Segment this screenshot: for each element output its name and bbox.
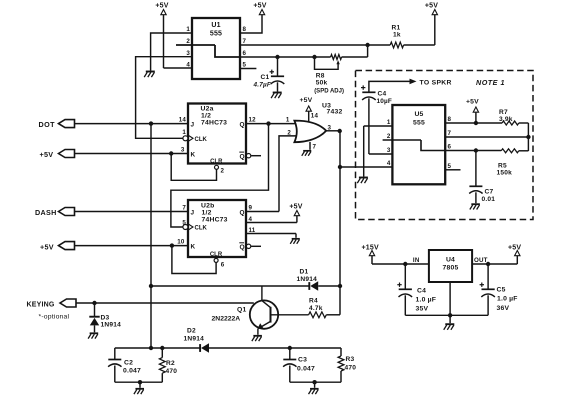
svg-text:5: 5 <box>448 163 452 170</box>
ground below C1 <box>271 93 282 99</box>
capacitor C2 0.047 <box>108 348 141 382</box>
or-gate U3 7432 <box>294 103 342 143</box>
op-amp U5 555 timer box <box>392 105 445 184</box>
ground below C7 <box>470 204 480 209</box>
wire KEYING to Q1 collector region <box>76 302 254 304</box>
node optional note <box>39 314 70 321</box>
svg-text:7: 7 <box>313 144 317 151</box>
svg-text:R4: R4 <box>309 298 318 305</box>
svg-text:1N914: 1N914 <box>297 276 318 283</box>
svg-text:1.0 µF: 1.0 µF <box>416 297 437 304</box>
svg-text:*-optional: *-optional <box>39 314 70 321</box>
power +5V arrow at U4 output <box>508 245 521 256</box>
svg-text:J: J <box>191 121 195 128</box>
svg-text:11: 11 <box>249 227 256 234</box>
svg-text:C5: C5 <box>497 287 506 294</box>
svg-text:7805: 7805 <box>443 265 459 272</box>
svg-text:R2: R2 <box>166 360 175 367</box>
node KEYING input terminal <box>27 299 77 308</box>
svg-text:50k: 50k <box>316 80 328 87</box>
wire U4 OUT to +5V <box>472 256 517 264</box>
wire C2 bottom rail <box>115 381 163 383</box>
svg-text:C3: C3 <box>298 357 307 364</box>
wire U5 pin5 stub <box>445 169 460 171</box>
node R7/R5/pin7 junction <box>526 135 530 139</box>
wire R1 to +5V <box>404 15 435 46</box>
svg-text:9: 9 <box>249 204 253 211</box>
resistor R1 1k <box>390 25 403 48</box>
svg-text:U2a: U2a <box>201 106 214 113</box>
regulator U4 7805 box <box>429 250 472 282</box>
svg-text:CLR: CLR <box>210 159 223 165</box>
svg-text:K: K <box>191 151 196 158</box>
node C2 ground junction <box>138 380 142 384</box>
svg-text:555: 555 <box>413 120 425 127</box>
svg-text:Q: Q <box>240 244 245 251</box>
svg-text:+5V: +5V <box>425 3 438 10</box>
svg-text:0.01: 0.01 <box>482 196 496 203</box>
svg-text:8: 8 <box>243 26 247 33</box>
svg-text:J: J <box>191 209 195 216</box>
wire U2a Q down and to U2b CLK <box>171 124 269 227</box>
node C3 ground junction <box>312 380 316 384</box>
wire DOT to U2a pin14 J <box>75 123 189 125</box>
svg-text:1k: 1k <box>393 32 401 39</box>
svg-text:C2: C2 <box>124 360 133 367</box>
svg-text:3.9k: 3.9k <box>499 116 513 123</box>
svg-text:1: 1 <box>387 119 391 126</box>
svg-text:DOT: DOT <box>39 120 56 129</box>
wire U3 output pin3 <box>326 130 340 132</box>
svg-text:Q: Q <box>240 209 245 216</box>
wire R4 line to Q1 base <box>271 314 309 316</box>
svg-text:+5V: +5V <box>508 245 521 252</box>
svg-text:7: 7 <box>243 38 247 45</box>
wire U3 pin7 to ground <box>310 142 317 151</box>
svg-text:35V: 35V <box>416 306 429 313</box>
svg-text:NOTE 1: NOTE 1 <box>476 78 505 87</box>
wire U5 pin4 from OR gate <box>340 166 392 168</box>
power +5V arrow above R1 <box>425 3 438 15</box>
svg-text:R1: R1 <box>392 25 401 32</box>
node junction OR column with D1 rail <box>338 284 342 288</box>
svg-text:14: 14 <box>179 116 187 123</box>
svg-text:74HC73: 74HC73 <box>201 120 227 127</box>
U2b pin numbers <box>177 204 256 268</box>
ground at U5 pin 1 <box>357 178 368 184</box>
power +5V arrow above U1 pin 4 <box>155 3 192 69</box>
wire +5V to U2b pin10 K <box>75 245 189 247</box>
svg-text:R3: R3 <box>346 356 355 363</box>
svg-text:6: 6 <box>243 50 247 57</box>
U2b CLR bubble below box <box>214 258 218 262</box>
ground at U2b pin 11 <box>290 239 300 244</box>
wire U2b pin11 to ground <box>246 234 296 238</box>
svg-text:7: 7 <box>182 204 186 211</box>
ground below D3 <box>88 333 98 338</box>
svg-text:C7: C7 <box>485 189 494 196</box>
resistor R3 470 <box>338 348 356 382</box>
svg-text:1.0 µF: 1.0 µF <box>497 296 518 303</box>
ground at U3 pin 7 <box>302 151 312 156</box>
svg-text:10: 10 <box>177 238 185 245</box>
wire U2b K to CLR pin6 <box>172 246 216 274</box>
svg-text:6: 6 <box>221 262 225 269</box>
svg-text:3: 3 <box>181 146 185 153</box>
svg-text:1: 1 <box>182 129 186 136</box>
wire U5 pin7 row <box>445 136 528 138</box>
power +15V arrow <box>362 245 379 265</box>
svg-text:+5V: +5V <box>253 3 266 10</box>
node C5 junction <box>486 262 490 266</box>
node +5V input terminal upper <box>40 150 75 159</box>
ground below C2 rail <box>134 389 144 394</box>
svg-text:1N914: 1N914 <box>184 336 205 343</box>
svg-text:+5V: +5V <box>155 3 168 10</box>
svg-text:1: 1 <box>286 116 290 123</box>
wire U5 pin1 to ground <box>364 126 393 177</box>
svg-text:4: 4 <box>387 160 391 167</box>
svg-text:(SPD ADJ): (SPD ADJ) <box>314 89 344 95</box>
node C3 junction on rail <box>288 346 292 350</box>
U2b pin labels inside <box>188 209 245 258</box>
svg-text:K: K <box>191 244 196 251</box>
U3 input/output pin numbers <box>286 116 332 136</box>
node U3 output junction <box>338 129 342 133</box>
ground below U4 <box>444 324 455 330</box>
svg-text:2: 2 <box>287 129 291 136</box>
svg-text:0.047: 0.047 <box>123 368 141 375</box>
capacitor C4 1.0uF 35V <box>397 264 436 315</box>
svg-text:3: 3 <box>387 147 391 154</box>
svg-text:8: 8 <box>448 116 452 123</box>
resistor R2 470 <box>159 348 177 382</box>
svg-text:+5V: +5V <box>466 99 479 106</box>
svg-text:D2: D2 <box>187 328 196 335</box>
svg-text:555: 555 <box>210 31 222 38</box>
svg-text:+5V: +5V <box>40 150 54 159</box>
svg-text:+5V: +5V <box>300 97 313 104</box>
svg-text:C4: C4 <box>378 91 387 98</box>
svg-text:IN: IN <box>413 257 420 264</box>
wire C3 ground stub <box>314 382 316 388</box>
wire U5 pin3 lead <box>369 153 393 155</box>
node U2a Q junction <box>266 121 270 125</box>
svg-text:2: 2 <box>387 133 391 140</box>
wire U2a K to CLR pin2 <box>171 154 216 181</box>
wire U1 pin1 lead to ground drop <box>151 33 192 71</box>
wire C3 bottom rail <box>290 381 341 383</box>
resistor R8 50k speed pot <box>314 45 367 95</box>
node C7 junction <box>474 148 478 152</box>
power +5V arrow above U1 pin 8 <box>253 3 266 15</box>
node +5V junction at U5 pin8 <box>474 121 478 125</box>
svg-text:7432: 7432 <box>327 109 343 116</box>
power +5V arrow at U5 pin 8 <box>466 99 479 124</box>
node junction DOT-D1 rail <box>149 284 153 288</box>
svg-text:Q1: Q1 <box>237 307 246 314</box>
power +5V arrow at U2b pin 4 <box>289 204 302 216</box>
wire U1 pin3 to U2a CLK <box>136 57 192 139</box>
svg-text:470: 470 <box>345 365 357 372</box>
U2a pin numbers <box>179 116 256 174</box>
svg-text:C4: C4 <box>417 288 426 295</box>
node DOT branch junction <box>149 121 153 125</box>
svg-text:6: 6 <box>448 144 452 151</box>
svg-text:R7: R7 <box>499 109 508 116</box>
svg-text:TO SPKR: TO SPKR <box>420 79 452 86</box>
svg-text:+5V: +5V <box>289 204 302 211</box>
node C4 psu junction <box>403 262 407 266</box>
wire U1 pin5 stub <box>240 68 256 70</box>
wire U1 pin7 row to R1 <box>240 44 390 46</box>
svg-text:1/2: 1/2 <box>201 113 211 120</box>
svg-text:CLK: CLK <box>195 137 208 143</box>
wire +5V to U2a pin3 K <box>75 153 189 155</box>
node +5V/U2b K junction <box>170 243 174 247</box>
node C1 junction <box>275 55 279 59</box>
capacitor C7 0.01 <box>469 151 495 204</box>
diode D2 1N914 <box>184 328 210 353</box>
wire R7 to pin7 column <box>519 123 529 151</box>
wire D1 rail <box>151 285 340 287</box>
ground at U1 pin 1 <box>144 72 155 78</box>
flip-flop U2a 74HC73 box <box>188 104 246 164</box>
svg-text:14: 14 <box>311 113 319 120</box>
svg-text:Q: Q <box>240 121 245 128</box>
svg-text:KEYING: KEYING <box>27 301 55 308</box>
svg-text:1/2: 1/2 <box>202 210 212 217</box>
wire DASH to U2b pin7 J <box>75 211 189 213</box>
wire U5 pin8 row <box>445 122 502 124</box>
transistor Q1 2N2222A <box>212 286 279 335</box>
svg-text:+15V: +15V <box>362 245 379 252</box>
svg-text:470: 470 <box>166 368 178 375</box>
svg-text:R5: R5 <box>498 162 507 169</box>
node R2 junction on rail <box>160 346 164 350</box>
capacitor C1 4.7uF <box>253 57 285 92</box>
svg-text:+5V: +5V <box>40 242 54 251</box>
node +5V/K junction <box>169 151 173 155</box>
node U4 ground junction <box>448 313 452 317</box>
node DOT input terminal <box>39 120 75 129</box>
svg-text:C1: C1 <box>261 74 270 81</box>
wire DOT branch down to bottom rails <box>150 124 152 348</box>
wire +15V to U4 IN <box>372 257 429 264</box>
U2b CLK bubble <box>183 225 188 230</box>
capacitor C3 0.047 <box>283 348 315 382</box>
U1 pin numbers <box>186 26 246 69</box>
node DASH input terminal <box>35 208 75 218</box>
svg-text:2: 2 <box>221 168 225 175</box>
power +5V arrow at U3 pin 14 <box>300 97 319 121</box>
svg-text:D3: D3 <box>101 315 110 322</box>
svg-text:1N914: 1N914 <box>101 322 122 329</box>
node R8 left junction <box>312 55 316 59</box>
node NOTE 1 dashed enclosure <box>356 71 534 220</box>
wire U5 pin6 row <box>445 150 501 152</box>
svg-text:4.7k: 4.7k <box>309 305 323 312</box>
svg-text:Q: Q <box>240 153 245 160</box>
diode D3 1N914 <box>89 303 121 332</box>
wire U2b Q pin9 to OR gate input 2 <box>246 136 296 212</box>
op-amp U1 555 timer box <box>192 18 240 79</box>
svg-text:CLK: CLK <box>195 226 208 232</box>
wire U1 pin8 to +5V <box>240 15 262 34</box>
wire C2 ground stub <box>139 382 141 388</box>
svg-text:CLR: CLR <box>210 252 223 258</box>
svg-text:5: 5 <box>243 62 247 69</box>
svg-text:2N2222A: 2N2222A <box>212 316 241 323</box>
svg-text:12: 12 <box>249 116 257 123</box>
U2a Qbar bubble and stub <box>246 154 261 158</box>
wire U4 ground rail <box>405 282 488 315</box>
svg-text:150k: 150k <box>497 169 513 176</box>
svg-text:R8: R8 <box>316 73 325 80</box>
wire U2b pin4 to +5V <box>246 216 297 223</box>
node junction OR column with U5 pin4 line <box>338 165 342 169</box>
svg-text:OUT: OUT <box>474 257 488 264</box>
svg-text:74HC73: 74HC73 <box>202 217 228 224</box>
svg-text:2: 2 <box>186 38 190 45</box>
node junction DOT-C2 rail <box>149 346 153 350</box>
wire U1 pin2 to pin6 internal jumper <box>176 45 240 57</box>
node TO SPKR arrow <box>410 79 452 87</box>
node +5V input terminal lower <box>40 242 75 252</box>
node D3 junction <box>92 301 96 305</box>
svg-text:0.047: 0.047 <box>297 366 315 373</box>
wire D2 to C3 rail <box>209 347 341 349</box>
svg-text:D1: D1 <box>300 269 309 276</box>
resistor R5 150k <box>497 149 529 177</box>
node R8 wiper junction on pin7 row <box>365 43 369 47</box>
svg-text:U5: U5 <box>414 111 423 118</box>
wire U2a Q pin12 to OR gate input 1 <box>246 123 296 125</box>
U5 pin numbers <box>387 116 452 170</box>
svg-text:U4: U4 <box>446 257 455 264</box>
svg-text:10µF: 10µF <box>377 98 393 105</box>
svg-text:1: 1 <box>186 26 190 33</box>
wire C2 rail <box>115 347 200 349</box>
capacitor C4 10uF <box>361 81 410 154</box>
capacitor C5 1.0uF 36V <box>480 264 518 315</box>
U2a CLR bubble below box <box>215 165 219 169</box>
U2b Qbar bubble and stub <box>246 244 261 248</box>
flip-flop U2b 74HC73 box <box>188 200 246 257</box>
wire U5 pin2 to pin6 internal jumper <box>383 140 446 151</box>
svg-text:U1: U1 <box>211 22 220 29</box>
svg-text:36V: 36V <box>497 305 510 312</box>
resistor R7 3.9k <box>499 109 519 125</box>
wire U3 output down to R4 corner <box>339 131 341 315</box>
diode D1 1N914 <box>297 269 319 291</box>
U2a CLK bubble <box>183 136 188 141</box>
svg-text:3: 3 <box>186 50 190 57</box>
resistor R4 4.7k <box>309 298 340 318</box>
svg-text:DASH: DASH <box>35 208 57 217</box>
svg-text:U2b: U2b <box>201 203 214 210</box>
ground below C3 rail <box>309 389 319 394</box>
svg-text:7: 7 <box>448 130 452 137</box>
U2a pin labels inside <box>188 121 245 165</box>
svg-text:4.7µF: 4.7µF <box>253 82 272 89</box>
svg-text:4: 4 <box>249 216 253 223</box>
wire U4 ground stub <box>449 315 451 323</box>
ground below Q1 emitter <box>252 336 262 341</box>
wire U1 pin6 row <box>240 56 331 58</box>
